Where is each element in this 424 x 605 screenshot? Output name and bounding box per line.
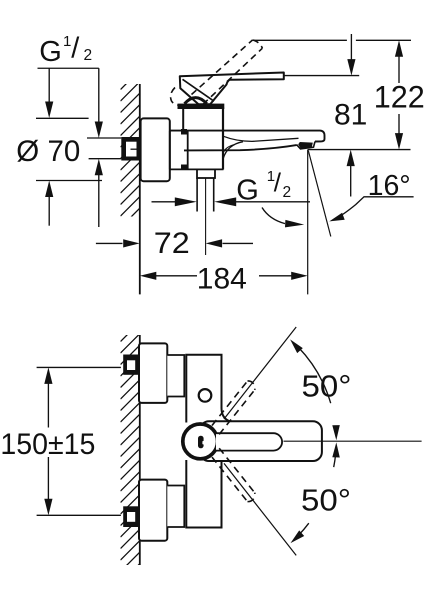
- shower outlet collar: [197, 169, 215, 178]
- G1/2 dim lower arrow: [95, 159, 103, 227]
- handle bar (front view): [200, 421, 322, 461]
- faucet body (side view): [183, 107, 223, 169]
- wall surface line (upper figure): [139, 84, 141, 294]
- shower outlet stub G1/2: [197, 178, 214, 212]
- wall hatching (upper figure): [121, 59, 141, 240]
- svg-text:122: 122: [374, 79, 424, 115]
- dimension 122 arrows: [395, 40, 403, 149]
- spout-body fillet curves: [223, 142, 243, 159]
- svg-text:/: /: [274, 168, 282, 198]
- svg-text:184: 184: [197, 262, 247, 295]
- extension line upper fitting center: [37, 366, 121, 368]
- svg-text:50°: 50°: [302, 369, 352, 404]
- svg-text:81: 81: [334, 99, 367, 132]
- dimension 150 arrows: [44, 367, 52, 515]
- S-union nut (side view): [170, 131, 224, 170]
- upper wall fitting (front view): [123, 355, 139, 375]
- cartridge dome arc: [185, 98, 207, 104]
- spout top edge: [170, 131, 325, 142]
- dimension 72: right arrow: [206, 239, 253, 247]
- cartridge collar black band: [178, 104, 225, 109]
- extension line escutcheon bottom: [36, 180, 102, 182]
- upper escutcheon (front view): [139, 343, 167, 403]
- O70 dim upper arrow: [45, 68, 53, 118]
- svg-text:1: 1: [63, 33, 71, 50]
- upper union nut (front view): [167, 355, 184, 397]
- extension line union bottom: [89, 158, 122, 160]
- extension line lever top: [284, 75, 359, 77]
- aerator outlet: [297, 142, 316, 149]
- spout inner chamfer line: [224, 136, 299, 141]
- lower wall fitting (front view): [123, 506, 139, 527]
- hub center slot: [198, 436, 204, 448]
- handle top-surface edge line: [183, 79, 215, 101]
- wall surface line (lower figure): [139, 335, 141, 565]
- G1/2 dim upper arrow: [95, 68, 103, 138]
- upper dashed lever position: [212, 381, 255, 434]
- dimension 81 lower arrow: [347, 150, 355, 197]
- svg-text:/: /: [71, 33, 80, 65]
- G1/2 stub dimension line: [152, 197, 311, 206]
- faucet body (front view): [186, 355, 229, 528]
- handle hub ring: [183, 424, 218, 459]
- dimension 184: line+arrows: [140, 272, 308, 280]
- extension line escutcheon top: [36, 117, 89, 119]
- lower 50deg arc: [291, 442, 340, 543]
- lower dashed lever position: [212, 448, 255, 501]
- svg-text:G: G: [39, 36, 62, 68]
- wall hatching (lower figure): [121, 311, 141, 584]
- upper 50deg boundary line: [224, 327, 296, 419]
- lower escutcheon (front view): [139, 480, 167, 541]
- upper 50deg arc: [290, 339, 340, 440]
- joint mark lower: [181, 165, 187, 171]
- extension line spout outlet: [308, 149, 411, 151]
- svg-text:72: 72: [154, 227, 190, 260]
- handle bar slot: [216, 433, 282, 450]
- lower 50deg boundary line: [224, 463, 296, 555]
- stub center line: [205, 178, 207, 255]
- dimension 72: left arrow: [96, 239, 140, 247]
- escutcheon flange O70 (side view): [141, 118, 170, 181]
- svg-text:2: 2: [84, 47, 93, 64]
- svg-text:50°: 50°: [301, 482, 351, 517]
- handle center reference line: [284, 440, 422, 442]
- svg-text:Ø 70: Ø 70: [16, 135, 80, 168]
- extension line union top: [87, 137, 121, 139]
- outlet vertical extension line: [307, 150, 309, 295]
- extension line lower fitting center: [37, 514, 121, 516]
- wall union fitting G1/2 (upper figure): [121, 137, 139, 161]
- 16deg leader: [329, 197, 413, 222]
- svg-text:150±15: 150±15: [0, 428, 95, 461]
- lower union nut (front view): [167, 486, 184, 528]
- raised lever (dashed position): [171, 40, 263, 105]
- 16-degree slant line: [308, 151, 331, 237]
- label G1/2 top-left: [39, 33, 92, 68]
- lever handle (rest position): [180, 73, 284, 105]
- spout bottom edge: [184, 145, 297, 150]
- dimension 81 upper arrow: [347, 34, 355, 76]
- O70 dim lower arrow: [45, 181, 53, 226]
- screw circle: [199, 389, 212, 402]
- dimension G1/2 top-left: underline: [38, 67, 99, 69]
- label G1/2 middle: [236, 168, 291, 207]
- extension line raised-lever top: [254, 39, 411, 41]
- G1/2 middle leader arc: [262, 208, 304, 228]
- svg-text:2: 2: [283, 184, 292, 201]
- joint mark upper: [181, 129, 187, 135]
